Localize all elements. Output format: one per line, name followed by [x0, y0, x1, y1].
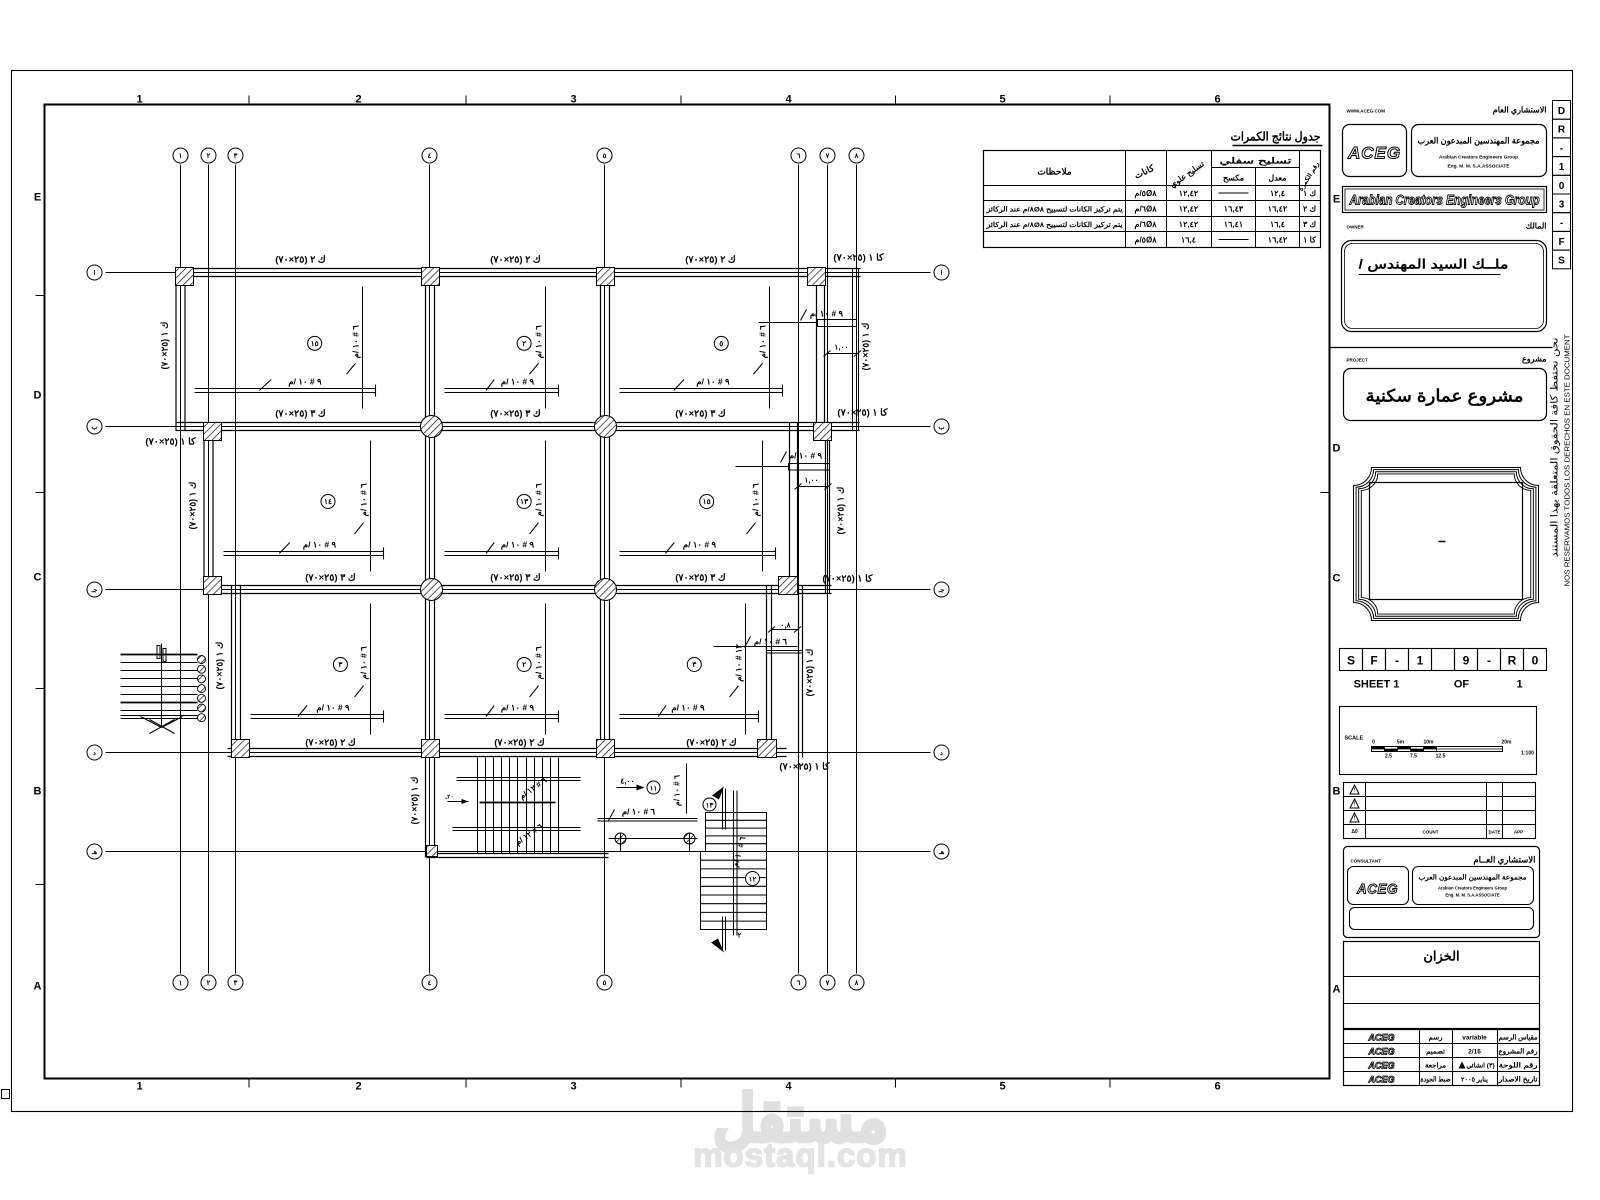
svg-text:٧: ٧: [825, 980, 830, 987]
svg-text:١٢,٤٢: ١٢,٤٢: [1179, 205, 1199, 214]
svg-text:٥: ٥: [603, 980, 607, 987]
svg-text:-: -: [1560, 143, 1563, 154]
svg-text:E: E: [1333, 194, 1340, 206]
svg-text:٥Ø٨/م: ٥Ø٨/م: [1134, 236, 1157, 246]
svg-text:٥Ø٨/م: ٥Ø٨/م: [1134, 189, 1157, 199]
svg-text:٣: ٣: [234, 153, 238, 160]
bottom-right stair: [701, 787, 767, 953]
svg-text:٦: ٦: [797, 980, 801, 987]
svg-text:ا: ا: [941, 269, 943, 277]
column bubbles bottom: [173, 975, 864, 990]
svg-text:ك ٢ (٢٥×٧٠): ك ٢ (٢٥×٧٠): [686, 738, 737, 749]
rights reserved rotated text: [1550, 334, 1572, 586]
beam VC col3: [232, 586, 241, 757]
svg-text:٢: ٢: [207, 153, 211, 160]
svg-text:رقم المشروع: رقم المشروع: [1499, 1048, 1539, 1056]
svg-text:٦Ø٨/م: ٦Ø٨/م: [1134, 205, 1157, 215]
svg-text:٧: ٧: [825, 153, 830, 160]
panel S3b: [620, 604, 759, 735]
small mark bottom-left edge: [2, 1090, 10, 1099]
svg-text:الاستشاري العــام: الاستشاري العــام: [1473, 855, 1535, 866]
stamp frame: [1354, 468, 1539, 621]
svg-text:Arabian Creators Engineers Gro: Arabian Creators Engineers Group: [1349, 193, 1540, 208]
svg-text:ب: ب: [91, 424, 98, 431]
svg-text:1: 1: [1417, 654, 1424, 668]
svg-text:1: 1: [136, 1081, 142, 1093]
svg-text:ك ٣ (٢٥×٧٠): ك ٣ (٢٥×٧٠): [490, 573, 541, 584]
svg-text:5m: 5m: [1397, 740, 1405, 746]
columns row B: [204, 423, 832, 441]
beam stair landing: [427, 854, 609, 858]
svg-text:معدل: معدل: [1268, 174, 1286, 183]
svg-text:1: 1: [136, 94, 142, 106]
svg-text:ك ٣ (٢٥×٧٠): ك ٣ (٢٥×٧٠): [305, 573, 356, 584]
svg-text:٣: ٣: [234, 980, 238, 987]
svg-text:SHEET 1: SHEET 1: [1354, 679, 1400, 691]
svg-text:١٥: ١٥: [311, 339, 319, 348]
svg-text:٩ # ١٠ /م: ٩ # ١٠ /م: [683, 540, 717, 551]
svg-text:٩ # ١٠ /م: ٩ # ١٠ /م: [501, 703, 535, 714]
svg-text:CONSULTANT: CONSULTANT: [1351, 859, 1382, 864]
svg-text:١٤: ١٤: [324, 497, 332, 506]
inner frame: [45, 105, 1330, 1079]
svg-text:٦ # ١٠ /م: ٦ # ١٠ /م: [673, 774, 683, 806]
svg-text:Arabian Creators Engineers Gro: Arabian Creators Engineers Group: [1438, 886, 1508, 891]
row bubbles left: [87, 265, 102, 859]
beam row C: [204, 586, 832, 594]
results table: [984, 130, 1323, 248]
svg-text:د: د: [93, 750, 96, 757]
svg-text:٦ # ١٠ /م: ٦ # ١٠ /م: [359, 483, 370, 517]
svg-text:COUNT: COUNT: [1423, 830, 1439, 835]
sheet title block: [1344, 942, 1540, 1029]
svg-text:١١: ١١: [650, 786, 658, 793]
svg-text:مراجعة: مراجعة: [1425, 1062, 1446, 1070]
svg-text:٥: ٥: [719, 339, 723, 348]
svg-text:OWNER: OWNER: [1347, 225, 1365, 230]
svg-text:٦ # ١٠ /م: ٦ # ١٠ /م: [754, 637, 788, 648]
svg-text:A: A: [1333, 984, 1341, 996]
beam top cantilever edge: [853, 269, 859, 431]
svg-text:D: D: [34, 390, 42, 402]
svg-text:٩ # ١٠ /م: ٩ # ١٠ /م: [810, 309, 844, 320]
beam VE col5: [601, 269, 610, 757]
svg-text:1: 1: [1559, 162, 1565, 173]
svg-text:كا ١ (٢٥×٧٠): كا ١ (٢٥×٧٠): [822, 574, 873, 585]
svg-text:0: 0: [1532, 654, 1539, 668]
svg-text:١٦,٤٢: ١٦,٤٢: [1268, 236, 1288, 245]
svg-text:ك ٢ (٢٥×٧٠): ك ٢ (٢٥×٧٠): [305, 738, 356, 749]
panel S15b: [620, 441, 776, 572]
columns row D: [232, 740, 777, 758]
svg-text:كا ١ (٢٥×٧٠): كا ١ (٢٥×٧٠): [833, 253, 884, 264]
svg-text:٩ # ١٠ /م: ٩ # ١٠ /م: [303, 540, 337, 551]
beam mid-right panel edge: [790, 423, 798, 594]
svg-text:المالك: المالك: [1526, 222, 1547, 231]
svg-text:٦ # ١٠ /م: ٦ # ١٠ /م: [351, 325, 362, 359]
svg-text:3: 3: [1559, 200, 1565, 211]
svg-text:ك ١ (٢٥×٧٠): ك ١ (٢٥×٧٠): [160, 322, 170, 370]
junction circles: [421, 416, 617, 601]
title block: [1330, 106, 1553, 421]
svg-text:D: D: [1333, 443, 1341, 455]
svg-text:2/16: 2/16: [1468, 1049, 1481, 1056]
svg-text:4: 4: [785, 1081, 792, 1093]
svg-text:-: -: [1560, 218, 1563, 229]
column stair landing: [427, 846, 438, 857]
beam VA col1: [176, 269, 185, 431]
svg-text:DATE: DATE: [1489, 830, 1501, 835]
beam mid cantilever edge: [826, 423, 830, 594]
svg-text:٦: ٦: [797, 153, 801, 160]
svg-text:جـ: جـ: [938, 587, 945, 594]
svg-text:٢: ٢: [738, 933, 742, 940]
svg-text:٢٠ـ: ٢٠ـ: [444, 795, 453, 801]
svg-text:0: 0: [1372, 740, 1375, 746]
svg-text:٩ # ١٠ /م: ٩ # ١٠ /م: [316, 703, 350, 714]
svg-text:كا ١ (٢٥×٧٠): كا ١ (٢٥×٧٠): [837, 408, 888, 419]
svg-text:١٣: ١٣: [520, 497, 529, 506]
svg-text:٨: ٨: [854, 980, 859, 987]
svg-text:WWW.ACEG.COM: WWW.ACEG.COM: [1347, 109, 1386, 114]
svg-text:١٦,٤: ١٦,٤: [1270, 220, 1285, 229]
svg-text:ك ١ (٢٥×٧٠): ك ١ (٢٥×٧٠): [861, 323, 871, 371]
svg-text:١٦,٤١: ١٦,٤١: [1224, 220, 1243, 229]
cantilever mid annotation: [736, 451, 832, 490]
svg-text:3: 3: [570, 94, 576, 106]
svg-text:٠,٨: ٠,٨: [780, 621, 791, 630]
ruler numbers top: [136, 94, 1220, 1093]
svg-text:٩ # ١٠ /م: ٩ # ١٠ /م: [288, 377, 322, 388]
svg-text:جدول نتائج الكمرات: جدول نتائج الكمرات: [1231, 130, 1321, 145]
svg-text:٥: ٥: [603, 153, 607, 160]
column grid lines: [181, 165, 857, 974]
svg-text:Arabian Creators Engineers Gro: Arabian Creators Engineers Group: [1439, 155, 1518, 161]
svg-text:تاريخ الاصدار: تاريخ الاصدار: [1497, 1076, 1537, 1084]
consultant block: [1344, 847, 1540, 938]
svg-text:R: R: [1558, 125, 1566, 136]
svg-text:يناير ٢٠٠٥: يناير ٢٠٠٥: [1461, 1076, 1488, 1084]
svg-text:ACEG: ACEG: [1367, 1075, 1394, 1085]
svg-text:ملاحظات: ملاحظات: [1037, 167, 1072, 177]
svg-text:٦ # ١٠ /م: ٦ # ١٠ /م: [751, 483, 762, 517]
svg-text:الاستشاري العام: الاستشاري العام: [1493, 106, 1547, 116]
svg-text:12.5: 12.5: [1436, 754, 1446, 760]
svg-text:جـ: جـ: [91, 587, 98, 594]
svg-text:ك ٢ (٢٥×٧٠): ك ٢ (٢٥×٧٠): [275, 255, 326, 266]
svg-text:١٦,٤٣: ١٦,٤٣: [1224, 205, 1244, 214]
svg-text:S: S: [1558, 256, 1565, 267]
svg-text:١: ١: [179, 980, 183, 987]
svg-text:ضبط الجودة: ضبط الجودة: [1421, 1076, 1451, 1084]
beam labels row 1: [275, 253, 884, 266]
svg-text:٩ # ١٠ /م: ٩ # ١٠ /م: [696, 377, 730, 388]
svg-text:ك ١ (٢٥×٧٠): ك ١ (٢٥×٧٠): [188, 482, 198, 530]
svg-text:مجموعة المهندسين المبدعون العر: مجموعة المهندسين المبدعون العرب: [1418, 136, 1540, 147]
svg-text:B: B: [1333, 786, 1341, 798]
info table: [1344, 1030, 1540, 1086]
svg-text:٩ # ١٠ /م: ٩ # ١٠ /م: [671, 703, 705, 714]
svg-text:٤,٠٠: ٤,٠٠: [620, 777, 634, 786]
svg-text:2: 2: [355, 1081, 361, 1093]
scale box: [1340, 707, 1537, 775]
panel S13: [445, 441, 559, 572]
svg-text:5: 5: [999, 94, 1005, 106]
svg-text:الخزان: الخزان: [1423, 949, 1459, 965]
svg-text:كا ١: كا ١: [1303, 236, 1316, 245]
svg-text:ك ٣ (٢٥×٧٠): ك ٣ (٢٥×٧٠): [490, 409, 541, 420]
svg-text:mostaql.com: mostaql.com: [693, 1137, 908, 1174]
svg-text:٦ # ١٠ /م: ٦ # ١٠ /م: [758, 325, 769, 359]
svg-text:F: F: [1558, 237, 1564, 248]
svg-text:٨: ٨: [854, 153, 859, 160]
panel S2: [445, 287, 559, 409]
svg-text:د: د: [940, 750, 943, 757]
svg-text:Eng. M. M. S.A.ASSOCIATE: Eng. M. M. S.A.ASSOCIATE: [1447, 164, 1510, 170]
svg-text:١,٠٠: ١,٠٠: [804, 476, 818, 485]
svg-text:1:100: 1:100: [1521, 751, 1534, 757]
row grid lines: [106, 273, 931, 852]
svg-text:مجموعة المهندسين المبدعون العر: مجموعة المهندسين المبدعون العرب: [1419, 874, 1527, 882]
svg-text:١٢,٤٢: ١٢,٤٢: [1179, 189, 1199, 198]
vertical beam labels: [160, 322, 871, 825]
beam labels row D: [305, 738, 830, 773]
svg-text:S: S: [1347, 654, 1355, 668]
column bubbles top: [173, 148, 864, 163]
svg-text:ك ١ (٢٥×٧٠): ك ١ (٢٥×٧٠): [805, 649, 815, 697]
svg-text:ك ١ (٢٥×٧٠): ك ١ (٢٥×٧٠): [215, 642, 225, 690]
ruler letters left: [34, 192, 1341, 996]
cantilever bottom annotation: [714, 621, 803, 654]
svg-text:رقم اللوحة: رقم اللوحة: [1499, 1062, 1539, 1070]
columns row C: [204, 577, 798, 595]
svg-text:٦ # ١٠ /م: ٦ # ١٠ /م: [534, 325, 545, 359]
svg-text:-: -: [1487, 654, 1491, 668]
svg-text:٩ # ١٠ /م: ٩ # ١٠ /م: [501, 377, 535, 388]
svg-text:APP: APP: [1514, 830, 1523, 835]
svg-text:6: 6: [1214, 1081, 1220, 1093]
panel S2b: [445, 604, 559, 735]
panel S3: [251, 604, 384, 735]
svg-text:٤: ٤: [428, 980, 432, 987]
svg-text:(٣) انشائي: (٣) انشائي: [1466, 1062, 1494, 1071]
svg-text:PROJECT: PROJECT: [1347, 358, 1369, 363]
svg-text:C: C: [1333, 573, 1341, 585]
svg-text:١,٠٠: ١,٠٠: [834, 343, 848, 352]
svg-text:R: R: [1508, 654, 1517, 668]
svg-text:-: -: [1395, 654, 1399, 668]
svg-text:variable: variable: [1462, 1035, 1487, 1042]
svg-text:SCALE: SCALE: [1345, 736, 1364, 742]
beam VD col4: [426, 269, 435, 858]
svg-text:ك ٣ (٢٥×٧٠): ك ٣ (٢٥×٧٠): [275, 409, 326, 420]
svg-text:ملــك السيد المهندس /: ملــك السيد المهندس /: [1359, 257, 1509, 273]
svg-text:٢: ٢: [207, 980, 211, 987]
cantilever top annotation: [759, 309, 862, 357]
svg-text:ك ١ (٢٥×٧٠): ك ١ (٢٥×٧٠): [410, 777, 420, 825]
svg-text:٦ # ١٠ /م: ٦ # ١٠ /م: [534, 483, 545, 517]
svg-text:مقياس الرسم: مقياس الرسم: [1499, 1034, 1538, 1042]
svg-text:كا ١ (٢٥×٧٠): كا ١ (٢٥×٧٠): [779, 762, 830, 773]
svg-text:ACEG: ACEG: [1367, 1061, 1394, 1071]
svg-text:٩ # ١٠ /م: ٩ # ١٠ /م: [789, 451, 823, 462]
svg-text:١٦,٤: ١٦,٤: [1181, 236, 1196, 245]
beam labels row B: [145, 408, 888, 448]
svg-text:2.5: 2.5: [1385, 754, 1392, 760]
svg-text:٦ # ١٠ /م: ٦ # ١٠ /م: [534, 646, 545, 680]
svg-text:ب: ب: [938, 424, 945, 431]
svg-text:ACEG: ACEG: [1367, 1033, 1394, 1043]
svg-text:ACEG: ACEG: [1347, 144, 1401, 163]
svg-text:رسم: رسم: [1429, 1035, 1444, 1042]
svg-text:Eng. M. M. S.A.ASSOCIATE: Eng. M. M. S.A.ASSOCIATE: [1445, 893, 1499, 898]
beam labels row C: [305, 573, 873, 585]
svg-text:Δ0: Δ0: [1351, 829, 1358, 835]
svg-text:تصميم: تصميم: [1426, 1049, 1445, 1056]
svg-text:5: 5: [999, 1081, 1005, 1093]
revision table: [1344, 783, 1536, 839]
svg-text:ا: ا: [94, 269, 96, 277]
svg-text:A: A: [34, 981, 42, 993]
svg-text:4: 4: [785, 94, 792, 106]
watermark mostaql: [693, 1083, 908, 1174]
svg-text:OF: OF: [1454, 679, 1470, 691]
stair area annotations: [598, 764, 698, 852]
svg-text:٦ # ١٠ /م: ٦ # ١٠ /م: [359, 646, 370, 680]
bottom-center stair: [444, 758, 580, 854]
svg-text:10m: 10m: [1423, 740, 1434, 746]
sheet number boxes: [1340, 649, 1547, 691]
svg-text:NOS RESERVAMOS TODOS LOS DEREC: NOS RESERVAMOS TODOS LOS DERECHOS EN EST…: [1563, 334, 1572, 586]
beam bottom cantilever edge: [799, 586, 803, 758]
svg-text:ACEG: ACEG: [1356, 882, 1398, 897]
svg-text:نحن نحتفظ كافة الحقوق المتعلقة: نحن نحتفظ كافة الحقوق المتعلقة بهذا المس…: [1550, 338, 1561, 558]
svg-text:20m: 20m: [1501, 740, 1512, 746]
svg-text:تسليح سفلي: تسليح سفلي: [1220, 156, 1293, 167]
svg-text:١٥: ١٥: [703, 497, 711, 506]
svg-text:١٢ # ١٠ /م: ١٢ # ١٠ /م: [734, 644, 745, 682]
row bubbles right: [934, 265, 949, 859]
svg-text:ACEG: ACEG: [1367, 1047, 1394, 1057]
svg-text:١٢,٤: ١٢,٤: [1270, 189, 1285, 198]
svg-text:مكسح: مكسح: [1223, 174, 1244, 184]
svg-text:يتم تركيز الكانات لتسييح ٨Ø٨/م: يتم تركيز الكانات لتسييح ٨Ø٨/م عند الركا…: [985, 206, 1122, 214]
beam bottom-right panel edge: [767, 586, 772, 758]
beam row B: [176, 423, 860, 431]
svg-text:C: C: [34, 572, 42, 584]
svg-text:٤: ٤: [428, 153, 432, 160]
svg-text:F: F: [1370, 654, 1377, 668]
svg-text:ك ٢ (٢٥×٧٠): ك ٢ (٢٥×٧٠): [685, 255, 736, 266]
svg-text:2: 2: [355, 94, 361, 106]
svg-text:١٣: ١٣: [706, 803, 714, 810]
svg-text:٩ # ١٠ /م: ٩ # ١٠ /م: [501, 540, 535, 551]
svg-text:هـ: هـ: [91, 849, 98, 856]
svg-text:٦Ø٨/م: ٦Ø٨/م: [1134, 220, 1157, 230]
svg-text:١٢: ١٢: [749, 877, 757, 884]
svg-text:١٢,٤٢: ١٢,٤٢: [1179, 220, 1199, 229]
svg-text:7.5: 7.5: [1410, 754, 1417, 760]
svg-text:مشروع عمارة سكنية: مشروع عمارة سكنية: [1366, 387, 1524, 407]
svg-text:ك ١ (٢٥×٧٠): ك ١ (٢٥×٧٠): [836, 487, 846, 535]
svg-text:ك ١: ك ١: [1303, 189, 1316, 198]
svg-text:D: D: [1558, 106, 1565, 117]
svg-text:ك ٣ (٢٥×٧٠): ك ٣ (٢٥×٧٠): [675, 573, 726, 584]
svg-text:ك ٢ (٢٥×٧٠): ك ٢ (٢٥×٧٠): [494, 738, 545, 749]
svg-text:١٦,٤٢: ١٦,٤٢: [1268, 205, 1288, 214]
svg-text:ك ٢: ك ٢: [1303, 205, 1316, 214]
panel S5: [620, 287, 783, 409]
svg-text:0: 0: [1559, 181, 1565, 192]
svg-text:B: B: [34, 786, 42, 798]
svg-text:مشروع: مشروع: [1522, 355, 1546, 365]
beam row D: [228, 749, 787, 757]
panel S14: [224, 441, 384, 572]
svg-text:١: ١: [179, 153, 183, 160]
svg-text:ك ٣ (٢٥×٧٠): ك ٣ (٢٥×٧٠): [675, 409, 726, 420]
drawing number strip: [1553, 101, 1571, 269]
beam top-right panel edge: [817, 269, 825, 431]
svg-text:6: 6: [1214, 94, 1220, 106]
columns row 1: [176, 268, 826, 286]
svg-text:1: 1: [1516, 679, 1522, 691]
svg-text:ك ٢ (٢٥×٧٠): ك ٢ (٢٥×٧٠): [490, 255, 541, 266]
svg-text:كا ١ (٢٥×٧٠): كا ١ (٢٥×٧٠): [145, 437, 196, 448]
svg-text:هـ: هـ: [938, 849, 945, 856]
svg-text:يتم تركيز الكانات لتسييح ٨Ø٨/م: يتم تركيز الكانات لتسييح ٨Ø٨/م عند الركا…: [985, 221, 1122, 229]
svg-text:٦ # ١٠ /م: ٦ # ١٠ /م: [622, 807, 656, 818]
svg-text:9: 9: [1463, 654, 1470, 668]
svg-text:ك ٣: ك ٣: [1303, 220, 1316, 229]
left stair: [121, 644, 206, 734]
beam row 1: [176, 269, 861, 277]
svg-text:E: E: [34, 192, 41, 204]
beam VB col2: [204, 423, 213, 594]
panel S15: [195, 287, 376, 409]
svg-text:3: 3: [570, 1081, 576, 1093]
